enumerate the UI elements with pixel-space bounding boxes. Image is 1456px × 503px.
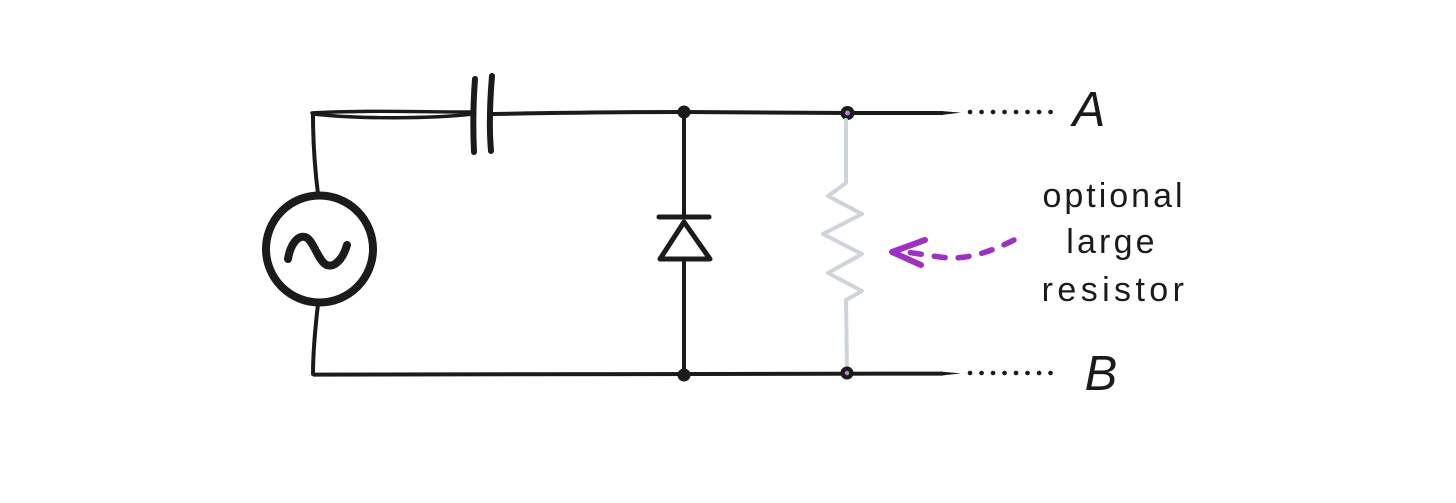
junction node: bottom of resistor (purple centre) (841, 367, 854, 380)
dotted lead to node A (970, 110, 1052, 115)
dotted lead to node B (970, 371, 1052, 376)
wire: top-left horizontal (doubled hand-drawn stroke) (312, 111, 473, 117)
svg-text:B: B (1085, 347, 1118, 401)
diode D1 (659, 118, 710, 372)
annotation text: optional large resistor (1042, 177, 1189, 309)
wire: resistor node to terminal A (tapered end) (848, 111, 961, 115)
wire: source bottom lead (313, 304, 318, 374)
wire: capacitor to diode junction (493, 112, 684, 114)
svg-text:large: large (1066, 223, 1158, 261)
annotation arrow (purple dashed) (892, 240, 1014, 265)
junction node: bottom of diode (678, 369, 691, 382)
wire: diode junction to resistor node (684, 112, 848, 113)
svg-text:optional: optional (1042, 177, 1185, 215)
junction node: top of diode (678, 106, 691, 119)
wire: source top lead (313, 115, 318, 194)
resistor R1 (optional large resistor, grey) (823, 120, 862, 371)
svg-text:A: A (1070, 83, 1106, 137)
junction node: top of resistor (purple centre) (841, 106, 855, 120)
svg-text:resistor: resistor (1042, 271, 1189, 309)
capacitor C1 (473, 76, 492, 152)
wire: bottom horizontal to terminal B (tapered end) (313, 372, 961, 377)
ac source V1 (266, 196, 373, 303)
